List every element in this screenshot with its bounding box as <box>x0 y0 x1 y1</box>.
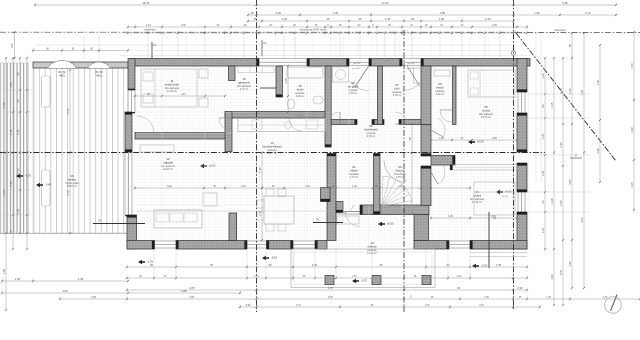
extension line vertical x148 <box>147 36 149 60</box>
svg-text:6,36 m²: 6,36 m² <box>367 135 376 138</box>
extension line vertical x395 <box>394 36 396 60</box>
svg-text:2,10: 2,10 <box>585 11 591 15</box>
svg-text:4,50: 4,50 <box>596 79 600 85</box>
room label 10 garderob <box>237 77 251 91</box>
dim row pergola (y50) <box>32 48 129 52</box>
dim row interior room05 (y140) <box>430 138 518 142</box>
svg-text:1,20: 1,20 <box>541 73 545 79</box>
svg-text:3,85: 3,85 <box>568 179 572 185</box>
extension line vertical x462 <box>461 36 463 60</box>
door arc room07 ext2 <box>402 82 421 91</box>
wall interior taro06 partition (x452-456) <box>453 66 457 125</box>
dense stripe hatch area left <box>1 63 29 234</box>
svg-text:1,70: 1,70 <box>352 275 357 278</box>
room label 04 szoba <box>470 190 484 204</box>
wall south segment B (x176-247) <box>176 241 247 250</box>
marker line F1 left <box>93 219 145 224</box>
room label 12 nappali <box>161 157 175 171</box>
svg-text:2,15: 2,15 <box>559 269 563 275</box>
svg-text:2,00: 2,00 <box>312 263 318 267</box>
sink furdo15 <box>313 96 323 104</box>
bed room05 <box>468 70 515 97</box>
svg-text:4,05: 4,05 <box>189 286 195 290</box>
svg-text:1,45: 1,45 <box>16 208 20 214</box>
svg-text:25: 25 <box>379 263 383 267</box>
stairs lepcso fan treads <box>382 160 412 206</box>
marker flag top 2 <box>260 87 276 89</box>
svg-text:4,05: 4,05 <box>189 296 194 299</box>
svg-text:-0,81: -0,81 <box>271 256 277 260</box>
wall right mid (y113-152) <box>517 113 527 152</box>
svg-text:95: 95 <box>408 137 412 141</box>
extension line vertical bottom x154 <box>153 250 155 280</box>
extension line horizontal right y212 <box>527 211 590 213</box>
svg-text:C: C <box>410 295 412 299</box>
elevation flag terrace 075 <box>16 174 31 179</box>
awning label left <box>58 71 66 78</box>
door arc bedroom11 <box>137 116 154 133</box>
svg-text:4,76 m²: 4,76 m² <box>396 176 405 179</box>
witness line horizontal y133 <box>136 132 256 134</box>
witness tick line x343 <box>342 36 344 57</box>
svg-text:-0,75: -0,75 <box>361 279 367 283</box>
porch edge line y211 <box>136 210 334 212</box>
svg-text:nappali: nappali <box>163 161 173 165</box>
extension line vertical x440 <box>439 36 441 60</box>
coffee table nappali <box>203 193 217 206</box>
witness tick line x452 <box>451 36 453 57</box>
svg-text:1,90: 1,90 <box>550 274 554 280</box>
wall interior furdo-kitchen vertical (x325-331 y58-147) <box>325 66 331 147</box>
door arc tarolo06 <box>440 110 452 122</box>
extension line vertical x340 <box>339 36 341 60</box>
section line vertical x404 <box>403 30 405 312</box>
dim col left 4 (x27) <box>26 57 28 250</box>
svg-text:2,10: 2,10 <box>457 275 462 278</box>
extension line vertical bottom x293 <box>292 250 294 280</box>
sofa nappali <box>154 210 202 228</box>
canopy inner line <box>294 252 432 285</box>
canopy column mid <box>372 276 381 285</box>
witness tick line x262 <box>261 36 263 57</box>
room label 07 futo <box>393 83 403 97</box>
svg-text:1,85: 1,85 <box>439 17 445 21</box>
svg-text:±0,00: ±0,00 <box>209 164 216 168</box>
dim row bottom 4 (y299) <box>59 296 640 301</box>
extension line horizontal left y215 <box>2 214 30 216</box>
extension line horizontal right y192 <box>527 191 590 193</box>
terrace plank area <box>33 68 128 233</box>
svg-text:2,30: 2,30 <box>485 17 491 21</box>
label A on diagonal <box>570 153 582 158</box>
svg-text:előtető: előtető <box>367 245 376 249</box>
svg-text:6,00: 6,00 <box>167 186 172 188</box>
svg-text:konyha-étkező: konyha-étkező <box>262 145 282 149</box>
svg-text:50: 50 <box>268 263 272 267</box>
svg-text:45: 45 <box>326 17 330 21</box>
witness tick line x244 <box>243 36 245 57</box>
svg-text:2,95: 2,95 <box>333 11 339 15</box>
svg-text:1,30: 1,30 <box>9 129 13 135</box>
svg-text:2,95: 2,95 <box>517 286 523 290</box>
elevation flag terrace 045 <box>36 183 51 188</box>
witness tick line x313 <box>312 36 314 57</box>
witness tick line x412 <box>411 36 413 57</box>
extension line vertical bottom x470 <box>469 250 471 280</box>
svg-text:fűtő: fűtő <box>394 87 399 91</box>
room label 16 terasz <box>66 174 79 188</box>
wardrobe garderob shelves <box>238 67 274 73</box>
elevation flag porch <box>378 222 394 227</box>
svg-text:4,77 m²: 4,77 m² <box>240 88 249 91</box>
svg-text:4,00: 4,00 <box>181 24 186 27</box>
witness line horizontal y166 <box>136 165 256 167</box>
wall interior hall east low (x421-431 y166-205) <box>421 166 431 206</box>
svg-text:4,00: 4,00 <box>276 11 282 15</box>
svg-text:1,98: 1,98 <box>596 148 600 154</box>
dim row bottom 5 (y307) <box>239 304 541 309</box>
extension line horizontal right y155 <box>527 154 590 156</box>
witness line horizontal y90 <box>136 89 256 91</box>
elevation flag south 081 <box>262 256 277 261</box>
dim col interior kitchen (x262) <box>258 151 263 241</box>
svg-text:pm 100: pm 100 <box>408 63 416 65</box>
svg-text:1,50: 1,50 <box>10 43 14 49</box>
closet niche lines room04 <box>450 165 517 171</box>
svg-text:4,50: 4,50 <box>580 217 584 223</box>
witness line x349 <box>348 66 350 240</box>
terrace planter upper <box>42 76 51 107</box>
extension line horizontal left y90 <box>2 89 30 91</box>
wall interior hall east (x421-431 y124-156) <box>421 125 431 157</box>
window top W3 (402-421) <box>401 59 423 66</box>
svg-text:98: 98 <box>16 72 20 76</box>
witness line x205 <box>204 66 206 240</box>
dim col left 1 (x6) <box>2 57 7 311</box>
window right W7 (y192-212) <box>518 191 525 214</box>
kitchen counter top <box>238 119 325 132</box>
wall top segment C (x369-402) <box>369 59 402 67</box>
canopy outline <box>291 249 435 288</box>
window top W2 (349-369) <box>348 59 371 66</box>
witness line x307 <box>306 66 308 240</box>
witness tick line x500 <box>499 36 501 57</box>
door arc kitchen eloter <box>343 202 354 213</box>
dim col left 2 (x13) <box>9 57 14 250</box>
witness tick line x336 <box>335 36 337 57</box>
wc furdo15 <box>288 99 295 109</box>
site guide line y50 <box>130 50 513 52</box>
wall top segment D (x421-530) <box>421 59 530 67</box>
extension line vertical bottom x426 <box>425 250 427 280</box>
wall interior eloter stub west (x320-330 y187-201) <box>321 188 331 202</box>
compass circle <box>605 295 622 314</box>
dim col right 3 (x563) <box>559 57 564 306</box>
room label 05 szoba <box>479 105 493 119</box>
svg-text:45: 45 <box>457 286 461 290</box>
svg-text:2,70: 2,70 <box>66 190 70 196</box>
svg-text:4,68: 4,68 <box>181 289 187 293</box>
svg-text:4,32 m²: 4,32 m² <box>349 92 358 95</box>
svg-text:18,00: 18,00 <box>142 1 149 5</box>
extension line vertical bottom x176 <box>175 250 177 280</box>
svg-text:4,08: 4,08 <box>62 289 68 293</box>
dim row top 5 (y33) <box>127 31 528 35</box>
svg-text:1,40: 1,40 <box>352 186 357 188</box>
svg-text:előtér: előtér <box>350 169 358 173</box>
door arc room07 int <box>395 112 407 124</box>
svg-text:2,50: 2,50 <box>491 216 496 218</box>
svg-text:12,78 m²: 12,78 m² <box>481 116 491 119</box>
wall interior eloter-lepcso (x373-380 y153-214) <box>374 154 381 215</box>
svg-text:1,45: 1,45 <box>546 296 551 299</box>
wall south segment C (x266-293) <box>267 241 294 250</box>
svg-text:45: 45 <box>411 17 415 21</box>
svg-text:29,97 m²: 29,97 m² <box>67 185 77 188</box>
svg-text:garderob: garderob <box>238 81 250 85</box>
elevation flag eloteto <box>352 279 367 284</box>
wall interior garderob bottom (y112-118 x225-331) <box>225 112 331 119</box>
dining table <box>257 189 294 231</box>
svg-text:19,47 m²: 19,47 m² <box>163 168 173 171</box>
extension line vertical x295 <box>294 36 296 60</box>
wall interior small rooms bottom 2 (y120-124 x399-421) <box>399 120 421 125</box>
svg-text:50: 50 <box>446 263 450 267</box>
svg-text:45: 45 <box>251 11 255 15</box>
dim row bottom 3 (y290) <box>126 286 528 292</box>
nightstand master <box>199 69 208 107</box>
marker line F1 center <box>313 218 343 223</box>
terrace bottom edge <box>0 233 128 235</box>
svg-text:1,50: 1,50 <box>630 63 634 69</box>
svg-text:1,75: 1,75 <box>425 304 430 307</box>
awning arc right <box>88 62 110 68</box>
property line diagonal <box>516 33 616 161</box>
extension line vertical x244 <box>243 36 245 60</box>
svg-text:pm 90: pm 90 <box>297 115 304 117</box>
door leaf room08 ext <box>355 66 369 88</box>
witness line horizontal y112 <box>136 111 256 113</box>
svg-text:AB01: AB01 <box>59 75 66 78</box>
room label 08 tkgepe <box>348 81 359 95</box>
window south W9 (247-266) <box>246 241 268 248</box>
extension line vertical x99 <box>98 36 100 60</box>
svg-text:1,20: 1,20 <box>16 168 20 174</box>
wall right low (y163-192) <box>517 163 527 192</box>
canopy column right <box>422 276 431 285</box>
extension line horizontal right y94 <box>527 93 590 95</box>
door arc room05 <box>431 118 445 137</box>
dim col right 1 (x545) <box>541 57 546 250</box>
site line right x541 <box>540 33 542 182</box>
extension line horizontal left y112 <box>2 111 30 113</box>
witness tick line x276 <box>275 36 277 57</box>
elevation flag room04 <box>496 190 512 195</box>
room label 11 szuloi halo <box>165 79 180 93</box>
wall top segment A (x130-259) <box>130 59 259 67</box>
witness tick line x372 <box>371 36 373 57</box>
wall right upper (y58-92) <box>517 59 527 93</box>
bed master bedroom <box>141 69 197 107</box>
svg-text:2,80: 2,80 <box>492 138 497 140</box>
svg-text:40: 40 <box>150 263 154 267</box>
witness tick line x377 <box>376 36 378 57</box>
witness tick line x331 <box>330 36 332 57</box>
extension line vertical bottom x266 <box>265 250 267 280</box>
door leaf room07 ext <box>407 66 420 87</box>
window right W6 (y92-113) <box>518 91 525 115</box>
door arc garderob <box>219 118 232 131</box>
extension line vertical x178 <box>177 36 179 60</box>
svg-text:1,18: 1,18 <box>258 167 262 173</box>
dim col interior furdo (x288) <box>284 65 289 113</box>
witness line x369 <box>368 66 370 240</box>
bed room04 <box>474 182 515 215</box>
svg-text:45: 45 <box>253 17 257 21</box>
svg-text:1,70: 1,70 <box>254 275 259 278</box>
svg-text:pm 180: pm 180 <box>352 68 360 70</box>
wall south segment F (x470-527) <box>470 241 527 250</box>
elevation flag south 075b <box>472 264 487 269</box>
window south W11 (448-470) <box>447 241 472 248</box>
elevation flag room05 <box>468 140 484 145</box>
svg-text:1,10: 1,10 <box>146 24 151 27</box>
wall interior small rooms bottom mid (x372-384) <box>372 120 384 125</box>
door arc furdo15 <box>289 118 302 131</box>
svg-text:AB01: AB01 <box>96 75 103 78</box>
svg-text:szülői háló: szülői háló <box>165 83 180 87</box>
svg-text:terasz: terasz <box>68 178 77 182</box>
svg-text:4,00: 4,00 <box>580 90 584 96</box>
svg-text:4,00: 4,00 <box>282 17 288 21</box>
wall left upper (y58-90) <box>128 59 135 91</box>
svg-text:4,05: 4,05 <box>328 296 333 299</box>
svg-text:tároló: tároló <box>436 86 444 90</box>
svg-text:1,50: 1,50 <box>9 82 13 88</box>
room label 14 eloteto <box>367 241 377 255</box>
svg-text:±0,00: ±0,00 <box>387 222 394 226</box>
witness tick line x295 <box>294 36 296 57</box>
wall south segment E (x414-449) <box>414 241 449 250</box>
witness line x402 <box>401 66 403 240</box>
room label 15 furdo <box>296 84 306 98</box>
section line horizontal B (y152.5) <box>0 152 545 154</box>
svg-text:lépcső: lépcső <box>396 169 405 173</box>
witness tick line x231 <box>230 36 232 57</box>
eloter cabinet <box>337 216 359 224</box>
dim row top 1 (y5) <box>34 1 617 7</box>
svg-text:22,57 m²: 22,57 m² <box>267 152 277 155</box>
svg-text:4,39: 4,39 <box>78 277 84 281</box>
witness tick line x384 <box>383 36 385 57</box>
extension line vertical bottom x372 <box>371 250 373 280</box>
svg-text:1,85: 1,85 <box>448 216 453 218</box>
wall left lower corner (y215-249) <box>127 215 137 249</box>
svg-text:2,40: 2,40 <box>241 186 246 188</box>
svg-text:1,70: 1,70 <box>296 304 301 307</box>
extension line vertical bottom x448 <box>447 250 449 280</box>
wall interior bedroom-furdo vertical (x276-282) <box>276 66 283 97</box>
dim row interior upper (y96) <box>134 94 226 98</box>
svg-text:3,15: 3,15 <box>550 102 554 108</box>
wall south segment A (x127-154) <box>127 241 155 250</box>
window south W8 (154-176) <box>153 241 177 248</box>
witness tick line x399 <box>398 36 400 57</box>
dim row bottom left (y281) <box>1 277 129 283</box>
wall entry east corner (x414-428.5 y214.5-247) <box>414 215 429 241</box>
svg-text:1,40: 1,40 <box>534 11 540 15</box>
dim col right 4 (x572) <box>568 32 573 289</box>
svg-text:1,60: 1,60 <box>568 261 572 267</box>
bathtub furdo15 <box>287 67 323 78</box>
witness tick line x470 <box>469 36 471 57</box>
window south W10 (293-315) <box>292 241 317 248</box>
dim col left vert mid (x70) <box>66 69 71 234</box>
dim row bottom 2 (y278) <box>126 275 528 280</box>
svg-text:2,10: 2,10 <box>181 94 186 96</box>
extension line vertical bottom x336 <box>335 250 337 280</box>
property line telekhatar right (y32.5) <box>516 32 640 34</box>
svg-text:4,30 m²: 4,30 m² <box>393 94 402 97</box>
dim row top 2 (y15) <box>247 11 617 17</box>
svg-text:9,60: 9,60 <box>246 304 251 307</box>
floor grid texture <box>130 58 530 250</box>
wall interior room0807 vertical (x377-382) <box>378 66 383 125</box>
svg-text:4,71 m²: 4,71 m² <box>350 176 359 179</box>
dim left top seg <box>10 31 15 60</box>
tv bench nappali <box>140 145 174 152</box>
svg-text:4,08: 4,08 <box>91 296 96 299</box>
awning label right <box>95 71 103 78</box>
svg-text:1,73: 1,73 <box>258 211 262 217</box>
witness tick line x431 <box>430 36 432 57</box>
wardrobe room05 <box>434 70 450 76</box>
wall left mid (y112-152) <box>125 112 132 152</box>
svg-text:80: 80 <box>541 104 545 108</box>
svg-text:szoba: szoba <box>482 109 490 113</box>
extension line horizontal left y233 <box>2 232 30 234</box>
wall top segment B (x307-349) <box>307 59 349 67</box>
wall interior eloter west (x327-336 y153-241) <box>327 154 336 241</box>
wall interior eloter stub east (x336-343 y201-212) <box>336 202 343 213</box>
extension line horizontal right y118 <box>527 117 590 119</box>
witness line horizontal y205 <box>136 204 256 206</box>
svg-text:fürdő: fürdő <box>297 88 304 92</box>
dim row interior (y188) <box>134 186 471 190</box>
svg-text:3,20: 3,20 <box>550 198 554 204</box>
witness tick line x225 <box>224 36 226 57</box>
dim row top 3 (y21) <box>247 17 515 23</box>
door arc entry <box>345 212 360 227</box>
extension line horizontal left y152 <box>2 151 30 153</box>
svg-text:2,45: 2,45 <box>492 24 497 27</box>
svg-text:2,20: 2,20 <box>559 88 563 94</box>
extension line vertical x162 <box>161 36 163 60</box>
elevation flag nappali pm00 <box>200 164 216 169</box>
room label 03 lepcso <box>394 165 406 179</box>
svg-text:építőanyag HRSI tároló: építőanyag HRSI tároló <box>300 28 328 32</box>
dim col right x600 <box>596 44 601 183</box>
svg-text:4,91 m²: 4,91 m² <box>296 95 305 98</box>
svg-text:1,90: 1,90 <box>2 102 6 108</box>
svg-text:2,02 m²: 2,02 m² <box>436 93 445 96</box>
extension line horizontal left y190 <box>2 189 30 191</box>
svg-text:2,10: 2,10 <box>9 181 13 187</box>
extension line vertical x485 <box>484 36 486 60</box>
svg-text:1,35: 1,35 <box>16 129 20 135</box>
section line vertical x513 <box>513 0 515 310</box>
svg-text:1,05: 1,05 <box>284 78 288 84</box>
